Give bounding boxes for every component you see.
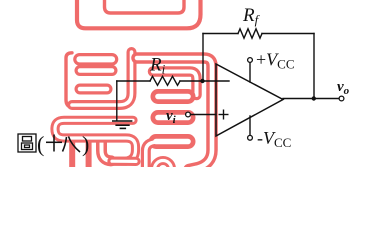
resistor Rf zigzag bbox=[238, 29, 262, 38]
node A junction dot bbox=[200, 79, 204, 83]
watermark glyph: inner bar row 0 with right drop bbox=[153, 72, 197, 96]
watermark glyph: bottom clipped ring bbox=[155, 161, 172, 178]
wire Ri to node A bbox=[180, 80, 203, 82]
resistor Ri zigzag bbox=[150, 76, 180, 85]
svg-text:): ) bbox=[82, 132, 89, 157]
watermark glyph: bottom run continuation bbox=[112, 157, 136, 166]
wire op-amp output bbox=[283, 98, 339, 100]
caption: character tu (figure) drawn bbox=[18, 134, 36, 152]
op-amp plus sign bbox=[219, 110, 229, 120]
watermark glyph: inner leg 3 hollow curving into bottom run bbox=[102, 141, 112, 161]
watermark glyph: top clipped box inner outline bbox=[105, 0, 185, 13]
wire Rf top horizontal bbox=[203, 33, 238, 35]
terminal -Vcc circle bbox=[248, 135, 253, 140]
svg-text:(: ( bbox=[37, 132, 44, 157]
terminal vo circle bbox=[339, 96, 344, 101]
wire right vertical from Rf to output node bbox=[313, 34, 315, 99]
watermark glyph: inner pill row 1 bbox=[158, 89, 188, 104]
watermark glyph: inner leg 1 bbox=[69, 140, 75, 168]
watermark glyph: top clipped box outer outline bbox=[77, 0, 201, 28]
caption: character ten (cross) bbox=[46, 135, 62, 152]
ground bbox=[112, 121, 132, 128]
op-amp U1 triangle bbox=[216, 64, 283, 136]
wire vi terminal to non-inverting input bbox=[191, 114, 217, 116]
wire -Vcc pin bbox=[249, 116, 251, 135]
watermark glyph: left enclosing wall line bbox=[66, 53, 72, 108]
wire left vertical from Rf to node A bbox=[202, 34, 204, 82]
terminal +Vcc circle bbox=[248, 58, 253, 63]
watermark glyph: inner row 3 with left down-turn bbox=[146, 142, 188, 169]
terminal vi circle bbox=[186, 112, 191, 117]
output junction dot bbox=[312, 96, 316, 100]
watermark glyph: inner pill row 2 bbox=[158, 110, 188, 125]
wire +Vcc pin bbox=[249, 62, 251, 82]
watermark glyph: central box top band and right wall J bbox=[137, 58, 212, 170]
wire from input vertical to resistor Ri bbox=[117, 80, 150, 82]
watermark glyph: inner leg 2 bbox=[86, 140, 92, 169]
watermark glyph: left vertical with leftward foot band bbox=[72, 52, 132, 105]
watermark glyph: serpentine band lower left bbox=[55, 120, 136, 161]
wire node A into inverting input bbox=[203, 80, 229, 82]
wire vertical down to ground bbox=[116, 81, 118, 120]
watermark glyph: left stacked hollow bars bbox=[80, 59, 113, 89]
caption: character eight bbox=[63, 137, 81, 153]
wire Rf to right vertical bbox=[262, 33, 314, 35]
circuit black layer bbox=[117, 29, 339, 135]
